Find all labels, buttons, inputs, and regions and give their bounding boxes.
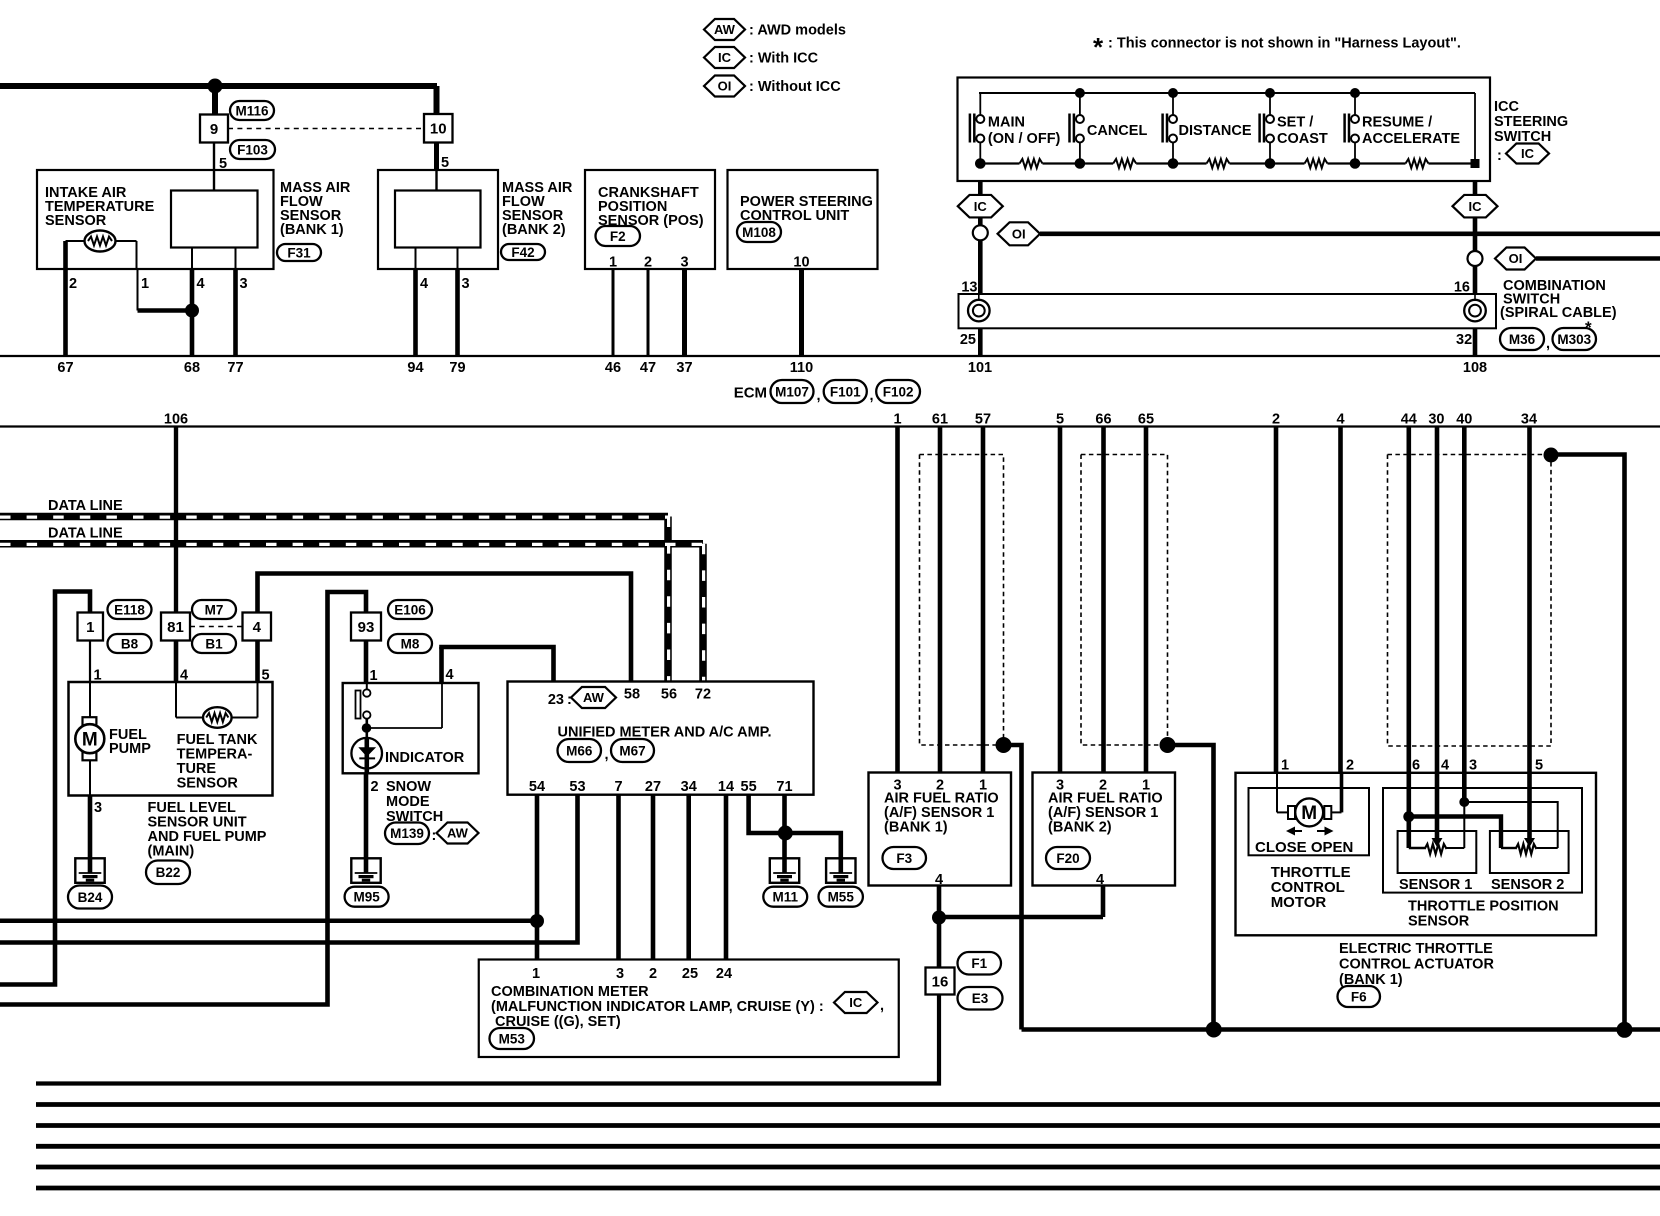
svg-text:4: 4 [420,276,428,292]
svg-text:65: 65 [1138,412,1154,428]
svg-text:RESUME /: RESUME / [1362,115,1432,131]
svg-text:32: 32 [1456,332,1472,348]
svg-text:47: 47 [640,360,656,376]
svg-text:MODE: MODE [386,794,430,810]
svg-text:,: , [817,388,821,404]
svg-text:67: 67 [57,360,73,376]
svg-text:2: 2 [371,779,379,795]
svg-text:34: 34 [1521,412,1537,428]
svg-text:68: 68 [184,360,200,376]
svg-text:(BANK 1): (BANK 1) [884,820,948,836]
svg-text:*: * [1093,32,1104,62]
svg-text:72: 72 [695,687,711,703]
svg-text:25: 25 [682,966,698,982]
svg-text:THROTTLE POSITION: THROTTLE POSITION [1408,899,1559,915]
svg-text:M66: M66 [566,743,593,758]
svg-text:ECM: ECM [734,385,767,402]
svg-text:M303: M303 [1557,332,1591,347]
svg-text:: With ICC: : With ICC [749,51,819,67]
svg-text:OI: OI [718,79,732,94]
svg-text:34: 34 [681,779,697,795]
svg-text:24: 24 [716,966,732,982]
svg-text:61: 61 [932,412,948,428]
svg-text:F6: F6 [1351,989,1367,1004]
svg-text:: AWD models: : AWD models [749,23,846,39]
svg-text:1: 1 [532,966,540,982]
svg-text:F31: F31 [287,245,311,260]
svg-text:58: 58 [624,687,640,703]
svg-text:CONTROL ACTUATOR: CONTROL ACTUATOR [1339,957,1494,973]
svg-text:4: 4 [197,276,205,292]
svg-text:F42: F42 [511,245,534,260]
svg-text:44: 44 [1401,412,1417,428]
svg-text:4: 4 [253,619,262,636]
svg-text:7: 7 [614,779,622,795]
svg-text:(MALFUNCTION INDICATOR LAMP, C: (MALFUNCTION INDICATOR LAMP, CRUISE (Y) … [491,999,824,1015]
svg-text:COMBINATION METER: COMBINATION METER [491,984,649,1000]
svg-text:E118: E118 [114,602,145,617]
svg-text:E3: E3 [972,991,989,1006]
svg-text:3: 3 [94,800,102,816]
svg-text:4: 4 [1441,758,1449,774]
svg-text:94: 94 [407,360,423,376]
svg-text:: This connector is not shown: : This connector is not shown in "Harnes… [1108,36,1461,52]
svg-text:: Without ICC: : Without ICC [749,79,841,95]
svg-text:4: 4 [180,668,188,684]
svg-text:106: 106 [164,412,188,428]
svg-text:M67: M67 [619,743,645,758]
svg-text:9: 9 [210,121,218,138]
svg-text:46: 46 [605,360,621,376]
svg-text:IC: IC [1469,199,1483,214]
svg-text:(SPIRAL CABLE): (SPIRAL CABLE) [1500,305,1617,321]
svg-text:(BANK 2): (BANK 2) [1048,820,1112,836]
svg-text:5: 5 [441,155,449,171]
svg-text:1: 1 [609,255,617,271]
svg-text:M108: M108 [742,225,776,240]
svg-text:DISTANCE: DISTANCE [1179,123,1252,139]
svg-text:B24: B24 [78,890,103,905]
svg-text:2: 2 [69,276,77,292]
svg-text:M55: M55 [828,890,855,905]
svg-text:CLOSE OPEN: CLOSE OPEN [1255,839,1353,856]
svg-text:SENSOR: SENSOR [177,776,239,792]
svg-text:5: 5 [262,668,270,684]
svg-text:1: 1 [141,276,149,292]
svg-text:(BANK 1): (BANK 1) [280,222,344,238]
svg-text:M8: M8 [401,636,420,651]
svg-text:2: 2 [649,966,657,982]
svg-text:STEERING: STEERING [1494,114,1568,130]
svg-text:M: M [82,730,98,751]
svg-text:66: 66 [1095,412,1111,428]
svg-text:ELECTRIC THROTTLE: ELECTRIC THROTTLE [1339,941,1493,957]
svg-text:30: 30 [1428,412,1444,428]
svg-text:(ON / OFF): (ON / OFF) [988,131,1061,147]
svg-text:F102: F102 [883,384,914,399]
svg-text:10: 10 [430,121,447,138]
svg-text:DATA LINE: DATA LINE [48,526,123,542]
svg-text:IC: IC [974,199,988,214]
svg-text:F20: F20 [1056,851,1079,866]
svg-text:INDICATOR: INDICATOR [385,750,465,766]
svg-text:4: 4 [1336,412,1344,428]
svg-text:6: 6 [1412,758,1420,774]
svg-text:2: 2 [644,255,652,271]
svg-text:DATA LINE: DATA LINE [48,498,123,514]
svg-text::: : [567,692,572,708]
svg-text:23: 23 [548,692,564,708]
svg-text:,: , [870,388,874,404]
svg-text:CANCEL: CANCEL [1087,123,1148,139]
svg-text:79: 79 [449,360,465,376]
svg-text:53: 53 [569,779,585,795]
svg-text:SENSOR: SENSOR [45,213,107,229]
svg-text:M107: M107 [775,384,809,399]
svg-text:F2: F2 [610,229,626,244]
svg-text:3: 3 [680,255,688,271]
svg-text:M139: M139 [390,826,424,841]
svg-text:110: 110 [790,360,813,376]
svg-text:SET /: SET / [1277,115,1313,131]
svg-text:5: 5 [1056,412,1064,428]
svg-text:M95: M95 [353,890,380,905]
svg-text:MOTOR: MOTOR [1271,894,1327,911]
svg-text:B8: B8 [121,636,139,651]
svg-text:57: 57 [975,412,991,428]
svg-text:F3: F3 [896,851,912,866]
svg-text:SENSOR 2: SENSOR 2 [1491,877,1564,893]
svg-text:2: 2 [1346,758,1354,774]
svg-text:54: 54 [529,779,545,795]
svg-text::: : [1497,148,1502,164]
svg-text:1: 1 [86,619,94,636]
svg-text:(BANK 2): (BANK 2) [502,222,566,238]
svg-text:AW: AW [583,690,605,705]
svg-text:3: 3 [240,276,248,292]
svg-text:PUMP: PUMP [109,741,151,757]
svg-text:ACCELERATE: ACCELERATE [1362,131,1460,147]
svg-text:(MAIN): (MAIN) [148,844,195,860]
svg-text:M116: M116 [235,103,269,118]
svg-text:71: 71 [776,779,792,795]
svg-text:5: 5 [1535,758,1543,774]
svg-text:4: 4 [1096,872,1104,888]
svg-text:77: 77 [227,360,243,376]
svg-text:F101: F101 [830,384,861,399]
svg-text:MAIN: MAIN [988,115,1025,131]
svg-text:1: 1 [370,668,378,684]
svg-text:IC: IC [1521,146,1535,161]
svg-text:3: 3 [462,276,470,292]
svg-text:14: 14 [718,779,734,795]
svg-text:SENSOR 1: SENSOR 1 [1399,877,1472,893]
svg-text:3: 3 [616,966,624,982]
svg-text:AW: AW [714,22,736,37]
svg-text:OI: OI [1509,251,1523,266]
svg-text:1: 1 [893,412,901,428]
svg-text:4: 4 [446,667,454,683]
svg-text:COAST: COAST [1277,131,1328,147]
svg-text:81: 81 [167,619,184,636]
svg-text:M: M [1301,803,1317,824]
svg-text:F1: F1 [971,956,987,971]
svg-text:M7: M7 [205,602,224,617]
svg-text:108: 108 [1463,360,1487,376]
svg-text:3: 3 [1469,758,1477,774]
svg-text:2: 2 [1272,412,1280,428]
svg-text:M36: M36 [1509,332,1536,347]
svg-text:10: 10 [793,255,809,271]
svg-text:IC: IC [718,50,732,65]
svg-text:16: 16 [932,973,949,990]
svg-text:1: 1 [1281,758,1289,774]
svg-text:SNOW: SNOW [386,779,431,795]
svg-text:93: 93 [358,619,375,636]
svg-text:101: 101 [968,360,992,376]
svg-text:E106: E106 [394,602,426,617]
svg-text:B1: B1 [205,636,223,651]
svg-text:40: 40 [1456,412,1472,428]
svg-text:56: 56 [661,687,677,703]
svg-text:AW: AW [447,826,469,841]
svg-text:,: , [1546,336,1550,352]
svg-text:OI: OI [1012,226,1026,241]
svg-text:SENSOR: SENSOR [1408,914,1470,930]
svg-text:B22: B22 [156,865,181,880]
svg-text:25: 25 [960,332,976,348]
svg-text:ICC: ICC [1494,99,1520,115]
svg-text:27: 27 [645,779,661,795]
svg-text:IC: IC [849,995,863,1010]
svg-text::: : [432,828,437,844]
svg-text:F103: F103 [237,142,268,157]
svg-text:55: 55 [741,779,757,795]
svg-text:1: 1 [94,668,102,684]
svg-text:M11: M11 [772,890,798,905]
svg-text:M53: M53 [499,1031,526,1046]
svg-text:,: , [605,747,609,763]
svg-text:37: 37 [676,360,692,376]
svg-text:,: , [880,998,884,1014]
